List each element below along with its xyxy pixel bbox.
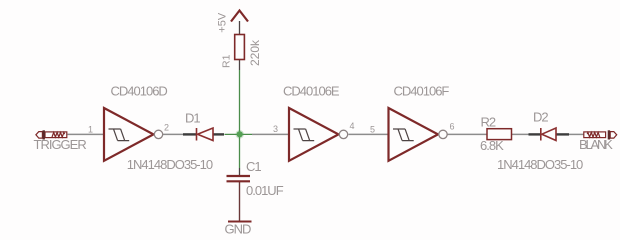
svg-text:1N4148DO35-10: 1N4148DO35-10	[127, 157, 213, 172]
svg-text:CD40106D: CD40106D	[111, 84, 168, 99]
svg-text:5: 5	[370, 125, 375, 135]
svg-text:2: 2	[164, 123, 169, 133]
svg-text:1N4148DO35-10: 1N4148DO35-10	[497, 157, 583, 172]
svg-text:D1: D1	[185, 111, 200, 126]
svg-text:GND: GND	[225, 222, 252, 237]
svg-text:R2: R2	[481, 115, 496, 130]
svg-text:1: 1	[88, 125, 93, 135]
svg-text:CD40106E: CD40106E	[283, 84, 340, 99]
svg-text:6.8K: 6.8K	[480, 138, 504, 153]
svg-text:CD40106F: CD40106F	[394, 84, 450, 99]
svg-text:4: 4	[350, 121, 355, 131]
svg-text:D2: D2	[533, 110, 548, 125]
svg-text:0.01UF: 0.01UF	[246, 183, 284, 198]
svg-text:220k: 220k	[248, 39, 262, 66]
svg-text:R1: R1	[221, 54, 233, 68]
svg-text:TRIGGER: TRIGGER	[34, 137, 87, 152]
svg-text:6: 6	[450, 122, 455, 132]
svg-text:3: 3	[273, 124, 278, 134]
svg-text:BLANK: BLANK	[579, 137, 613, 152]
svg-text:+5V: +5V	[217, 12, 229, 33]
svg-text:C1: C1	[246, 159, 261, 174]
